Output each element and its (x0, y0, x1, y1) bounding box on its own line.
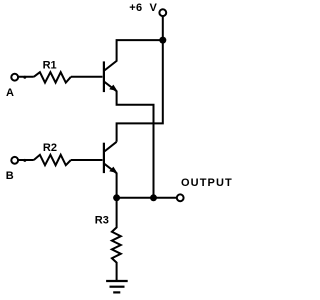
svg-text:R3: R3 (95, 214, 109, 226)
svg-text:OUTPUT: OUTPUT (181, 177, 233, 189)
svg-text:B: B (6, 170, 14, 182)
svg-text:R2: R2 (43, 142, 57, 154)
svg-text:R1: R1 (43, 60, 57, 72)
svg-text:+6 V: +6 V (129, 2, 157, 14)
svg-text:A: A (6, 87, 14, 99)
